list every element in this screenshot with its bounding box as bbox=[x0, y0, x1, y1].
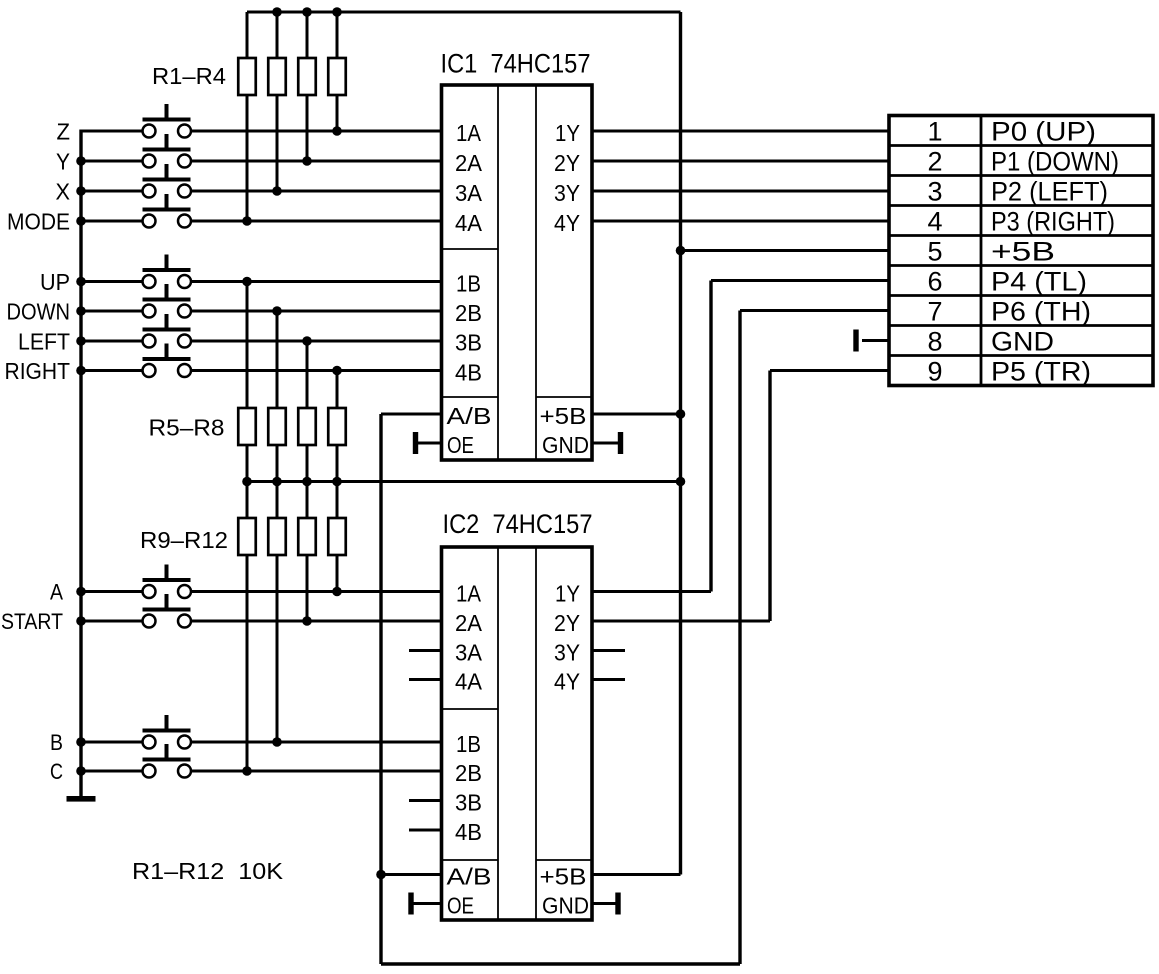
label R1-R4 bbox=[152, 63, 226, 89]
wire X to IC1 3A bbox=[191, 190, 442, 193]
wire TH to table pin 7 bbox=[740, 309, 889, 312]
svg-text:RIGHT: RIGHT bbox=[5, 358, 71, 384]
svg-text:1A: 1A bbox=[456, 120, 482, 146]
junction bus / X bbox=[76, 186, 86, 196]
svg-text:4Y: 4Y bbox=[554, 210, 580, 236]
label X bbox=[56, 178, 71, 204]
junction +5V / IC1 +5B bbox=[676, 409, 686, 419]
push-button SW-LEFT bbox=[143, 314, 192, 348]
svg-text:2B: 2B bbox=[455, 760, 482, 786]
junction bus / Y bbox=[76, 156, 86, 166]
svg-text:P2 (LEFT): P2 (LEFT) bbox=[991, 176, 1108, 206]
svg-text:1B: 1B bbox=[456, 731, 481, 757]
svg-text:9: 9 bbox=[927, 356, 942, 386]
wire bus to SW-B bbox=[81, 741, 143, 744]
junction R1 / MODE net bbox=[242, 216, 252, 226]
junction bus / A bbox=[76, 587, 86, 597]
junction R2 / X net bbox=[272, 186, 282, 196]
push-button SW-B bbox=[143, 715, 192, 749]
stub IC2 3A bbox=[409, 649, 442, 652]
resistor R8 bbox=[328, 371, 346, 482]
table pin 7 name P6 (TH) bbox=[991, 296, 1091, 326]
resistor R9 bbox=[238, 482, 256, 772]
label Z bbox=[57, 118, 71, 144]
connector DB9 pin table bbox=[889, 116, 1153, 386]
table pin 8 number bbox=[927, 326, 942, 356]
resistor R12 bbox=[328, 482, 346, 592]
svg-text:P5 (TR): P5 (TR) bbox=[991, 356, 1091, 386]
resistor R5 bbox=[238, 282, 256, 482]
wire bus to SW-Z bbox=[81, 130, 143, 133]
svg-text:P1 (DOWN): P1 (DOWN) bbox=[991, 146, 1119, 176]
svg-text:1B: 1B bbox=[456, 271, 481, 297]
IC2 pin 2B bbox=[455, 760, 482, 786]
svg-text:1Y: 1Y bbox=[555, 120, 580, 146]
table GND stub bbox=[862, 339, 889, 342]
wire bus to SW-Y bbox=[81, 160, 143, 163]
svg-text:1: 1 bbox=[927, 116, 942, 146]
stub IC2 3Y bbox=[592, 649, 625, 652]
wire IC2 +5B to +5V net bbox=[592, 873, 681, 876]
svg-text:P6 (TH): P6 (TH) bbox=[991, 296, 1091, 326]
stub IC2 3B bbox=[409, 799, 442, 802]
table pin 9 name P5 (TR) bbox=[991, 356, 1091, 386]
IC1 pin 1B bbox=[456, 271, 481, 297]
junction R7 / LEFT net bbox=[302, 336, 312, 346]
svg-text:C: C bbox=[50, 759, 63, 784]
IC1 OE ground tick bbox=[413, 433, 417, 454]
wire B to IC2 1B bbox=[191, 741, 442, 744]
junction bus / B bbox=[76, 737, 86, 747]
junction R8 / RIGHT net bbox=[332, 366, 342, 376]
push-button SW-A bbox=[143, 565, 192, 599]
wire LEFT to IC1 3B bbox=[191, 340, 442, 343]
svg-text:4B: 4B bbox=[455, 360, 482, 386]
table pin 8 name GND bbox=[991, 326, 1054, 356]
push-button SW-START bbox=[143, 594, 192, 628]
svg-text:2B: 2B bbox=[455, 300, 482, 326]
junction +5V / pin5 bbox=[676, 246, 686, 256]
stub IC2 4A bbox=[409, 678, 442, 681]
table pin 2 name P1 (DOWN) bbox=[991, 146, 1119, 176]
wire IC1 2Y to table pin 2 bbox=[592, 160, 889, 163]
svg-text:+5B: +5B bbox=[540, 864, 587, 890]
wire C to IC2 2B bbox=[191, 770, 442, 773]
svg-text:3B: 3B bbox=[455, 330, 482, 356]
svg-text:3A: 3A bbox=[455, 640, 483, 666]
svg-text:2Y: 2Y bbox=[554, 150, 580, 176]
resistor R1 bbox=[238, 12, 256, 221]
wire bus to SW-RIGHT bbox=[81, 369, 143, 372]
wire bus to SW-UP bbox=[81, 280, 143, 283]
svg-text:4B: 4B bbox=[455, 819, 482, 845]
table GND ground tick bbox=[854, 330, 858, 351]
IC2 GND ground tick bbox=[616, 893, 620, 914]
table pin 2 number bbox=[927, 146, 942, 176]
svg-text:R1–R4: R1–R4 bbox=[152, 63, 226, 89]
junction rail / R7 bbox=[302, 477, 312, 487]
wire bus to SW-MODE bbox=[81, 220, 143, 223]
junction select / IC2 A/B bbox=[376, 870, 386, 880]
svg-text:GND: GND bbox=[542, 432, 589, 458]
label RIGHT bbox=[5, 358, 71, 384]
svg-text:3: 3 bbox=[927, 176, 942, 206]
junction R10 / B net bbox=[272, 737, 282, 747]
table pin 6 number bbox=[927, 266, 942, 296]
IC2 pin 4Y bbox=[554, 669, 580, 695]
table pin 3 name P2 (LEFT) bbox=[991, 176, 1108, 206]
IC2 pin A/B bbox=[447, 864, 492, 890]
junction R11 / START net bbox=[302, 616, 312, 626]
wire +5V rail mid bbox=[247, 480, 681, 483]
IC2 pin 1Y bbox=[555, 581, 580, 607]
svg-text:8: 8 bbox=[927, 326, 942, 356]
wire +5V top rail bbox=[247, 11, 681, 14]
wire IC1 4Y to table pin 4 bbox=[592, 220, 889, 223]
wire IC1 +5B to +5V net bbox=[592, 413, 681, 416]
junction bus / RIGHT bbox=[76, 366, 86, 376]
label UP bbox=[40, 269, 70, 295]
IC2 pin GND bbox=[542, 893, 589, 919]
svg-text:5: 5 bbox=[927, 236, 942, 266]
table pin 3 number bbox=[927, 176, 942, 206]
IC1 pin 4Y bbox=[554, 210, 580, 236]
junction rail / R5 bbox=[242, 477, 252, 487]
IC2 OE stub bbox=[413, 902, 442, 905]
label MODE bbox=[7, 208, 70, 234]
label B bbox=[50, 730, 63, 755]
junction bus / C bbox=[76, 766, 86, 776]
wire bus to SW-C bbox=[81, 770, 143, 773]
wire START to IC2 2A bbox=[191, 620, 442, 623]
wire DOWN to IC1 2B bbox=[191, 310, 442, 313]
wire TR to table pin 9 bbox=[770, 369, 889, 372]
label R1-R12 10K bbox=[132, 858, 284, 884]
wire Z to IC1 1A bbox=[191, 130, 442, 133]
svg-text:2: 2 bbox=[927, 146, 942, 176]
junction bus / MODE bbox=[76, 216, 86, 226]
wire IC1 A/B link bbox=[381, 413, 442, 416]
wire TH vertical bbox=[738, 311, 741, 965]
IC1 pin 3A bbox=[455, 180, 483, 206]
IC2 pin 2A bbox=[455, 610, 483, 636]
svg-text:4A: 4A bbox=[455, 669, 483, 695]
svg-text:2A: 2A bbox=[455, 610, 483, 636]
label R9-R12 bbox=[140, 527, 228, 553]
wire select vertical bbox=[379, 414, 382, 964]
IC IC2 74HC157 body bbox=[442, 547, 593, 920]
svg-text:6: 6 bbox=[927, 266, 942, 296]
svg-text:Z: Z bbox=[57, 118, 71, 144]
svg-text:OE: OE bbox=[447, 432, 474, 458]
IC2 pin 4A bbox=[455, 669, 483, 695]
wire +5V to table pin 5 bbox=[681, 249, 890, 252]
table pin 1 number bbox=[927, 116, 942, 146]
wire +5V vertical bbox=[679, 12, 682, 875]
svg-text:P3 (RIGHT): P3 (RIGHT) bbox=[991, 206, 1115, 236]
IC1 pin 1Y bbox=[555, 120, 580, 146]
wire bus to SW-X bbox=[81, 190, 143, 193]
IC1 pin 2Y bbox=[554, 150, 580, 176]
svg-text:R9–R12: R9–R12 bbox=[140, 527, 228, 553]
svg-text:B: B bbox=[50, 730, 63, 755]
svg-text:DOWN: DOWN bbox=[7, 298, 71, 324]
svg-text:1Y: 1Y bbox=[555, 581, 580, 607]
junction R6 / DOWN net bbox=[272, 306, 282, 316]
wire TL vertical bbox=[709, 281, 712, 592]
junction R3 / Y net bbox=[302, 156, 312, 166]
IC2 pin OE bbox=[447, 893, 474, 919]
wire bus to SW-A bbox=[81, 590, 143, 593]
svg-text:3Y: 3Y bbox=[554, 180, 580, 206]
stub IC2 4Y bbox=[592, 678, 625, 681]
resistor R6 bbox=[268, 311, 286, 482]
IC1 pin A/B bbox=[447, 403, 492, 429]
svg-text:4: 4 bbox=[927, 206, 942, 236]
wire IC2 1Y to corner bbox=[592, 590, 711, 593]
junction R12 / A net bbox=[332, 587, 342, 597]
wire A to IC2 1A bbox=[191, 590, 442, 593]
stub IC2 4B bbox=[409, 829, 442, 832]
svg-text:2Y: 2Y bbox=[554, 610, 580, 636]
resistor R3 bbox=[298, 12, 316, 161]
svg-text:IC2 74HC157: IC2 74HC157 bbox=[443, 509, 593, 539]
label IC2 74HC157 bbox=[443, 509, 593, 539]
wire IC1 1Y to table pin 1 bbox=[592, 130, 889, 133]
label START bbox=[1, 609, 63, 634]
label R5-R8 bbox=[149, 415, 225, 441]
junction R4 / Z net bbox=[332, 126, 342, 136]
IC2 pin 3Y bbox=[554, 640, 580, 666]
svg-text:R5–R8: R5–R8 bbox=[149, 415, 225, 441]
wire IC2 A/B link bbox=[381, 873, 442, 876]
IC IC1 74HC157 body bbox=[442, 85, 593, 460]
svg-text:UP: UP bbox=[40, 269, 70, 295]
svg-text:3B: 3B bbox=[455, 790, 482, 816]
wire bus to SW-START bbox=[81, 620, 143, 623]
svg-text:4Y: 4Y bbox=[554, 669, 580, 695]
label Y bbox=[56, 148, 70, 174]
label LEFT bbox=[18, 328, 70, 354]
IC2 pin 4B bbox=[455, 819, 482, 845]
resistor R11 bbox=[298, 482, 316, 622]
IC2 GND stub bbox=[592, 902, 616, 905]
IC1 pin 1A bbox=[456, 120, 482, 146]
push-button SW-Y bbox=[143, 134, 192, 168]
junction rail / R8 bbox=[332, 477, 342, 487]
IC2 pin 1B bbox=[456, 731, 481, 757]
wire IC1 3Y to table pin 3 bbox=[592, 190, 889, 193]
svg-text:1A: 1A bbox=[456, 581, 482, 607]
wire TL to table pin 6 bbox=[711, 279, 889, 282]
IC1 GND ground tick bbox=[618, 433, 622, 454]
junction bus / DOWN bbox=[76, 306, 86, 316]
wire MODE to IC1 4A bbox=[191, 220, 442, 223]
svg-text:3Y: 3Y bbox=[554, 640, 580, 666]
junction bus / LEFT bbox=[76, 336, 86, 346]
svg-text:2A: 2A bbox=[455, 150, 483, 176]
table pin 6 name P4 (TL) bbox=[991, 266, 1087, 296]
svg-text:+5B: +5B bbox=[540, 403, 587, 429]
IC1 pin GND bbox=[542, 432, 589, 458]
svg-text:P4 (TL): P4 (TL) bbox=[991, 266, 1087, 296]
svg-text:OE: OE bbox=[447, 893, 474, 919]
table pin 4 number bbox=[927, 206, 942, 236]
svg-text:4A: 4A bbox=[455, 210, 483, 236]
IC1 pin OE bbox=[447, 432, 474, 458]
table pin 5 name +5B bbox=[991, 236, 1055, 266]
table pin 4 name P3 (RIGHT) bbox=[991, 206, 1115, 236]
IC2 pin +5B bbox=[540, 864, 587, 890]
push-button SW-MODE bbox=[143, 194, 192, 228]
resistor R10 bbox=[268, 482, 286, 743]
svg-text:X: X bbox=[56, 178, 71, 204]
resistor R4 bbox=[328, 12, 346, 131]
svg-text:GND: GND bbox=[542, 893, 589, 919]
IC1 pin 2B bbox=[455, 300, 482, 326]
svg-text:+5B: +5B bbox=[991, 236, 1055, 266]
wire TR vertical bbox=[768, 371, 771, 622]
IC1 pin 2A bbox=[455, 150, 483, 176]
table pin 1 name P0 (UP) bbox=[991, 116, 1096, 146]
label DOWN bbox=[7, 298, 71, 324]
wire UP to IC1 1B bbox=[191, 280, 442, 283]
svg-text:3A: 3A bbox=[455, 180, 483, 206]
table pin 5 number bbox=[927, 236, 942, 266]
svg-text:IC1 74HC157: IC1 74HC157 bbox=[441, 49, 591, 79]
push-button SW-RIGHT bbox=[143, 344, 192, 378]
wire Y to IC1 2A bbox=[191, 160, 442, 163]
svg-text:MODE: MODE bbox=[7, 208, 70, 234]
svg-text:7: 7 bbox=[927, 296, 942, 326]
IC1 pin 4A bbox=[455, 210, 483, 236]
IC2 pin 1A bbox=[456, 581, 482, 607]
junction +5V / rail bbox=[676, 477, 686, 487]
junction top rail / R3 bbox=[302, 7, 312, 17]
junction R5 / UP net bbox=[242, 277, 252, 287]
wire IC2 2Y to corner bbox=[592, 620, 770, 623]
junction bus / START bbox=[76, 616, 86, 626]
IC2 pin 2Y bbox=[554, 610, 580, 636]
table pin 9 number bbox=[927, 356, 942, 386]
junction top rail / R4 bbox=[332, 7, 342, 17]
svg-text:Y: Y bbox=[56, 148, 70, 174]
svg-text:A/B: A/B bbox=[447, 403, 492, 429]
wire bus to SW-LEFT bbox=[81, 340, 143, 343]
label C bbox=[50, 759, 63, 784]
wire bus to SW-DOWN bbox=[81, 310, 143, 313]
push-button SW-X bbox=[143, 164, 192, 198]
resistor R7 bbox=[298, 341, 316, 482]
junction top rail / R2 bbox=[272, 7, 282, 17]
IC2 OE ground tick bbox=[409, 893, 413, 914]
table pin 7 number bbox=[927, 296, 942, 326]
IC1 pin 3Y bbox=[554, 180, 580, 206]
junction rail / R6 bbox=[272, 477, 282, 487]
svg-text:LEFT: LEFT bbox=[18, 328, 70, 354]
push-button SW-UP bbox=[143, 255, 192, 289]
junction bus / UP bbox=[76, 277, 86, 287]
IC2 pin 3A bbox=[455, 640, 483, 666]
svg-text:GND: GND bbox=[991, 326, 1054, 356]
IC1 OE stub bbox=[417, 442, 442, 445]
label A bbox=[50, 579, 63, 604]
svg-text:R1–R12 10K: R1–R12 10K bbox=[132, 858, 284, 884]
wire left common bus bbox=[79, 130, 82, 799]
IC1 pin +5B bbox=[540, 403, 587, 429]
junction R9 / C net bbox=[242, 766, 252, 776]
resistor R2 bbox=[268, 12, 286, 191]
wire TH bottom run bbox=[381, 962, 740, 965]
IC1 pin 4B bbox=[455, 360, 482, 386]
svg-text:A: A bbox=[50, 579, 63, 604]
svg-text:START: START bbox=[1, 609, 63, 634]
label IC1 74HC157 bbox=[441, 49, 591, 79]
IC1 pin 3B bbox=[455, 330, 482, 356]
IC2 pin 3B bbox=[455, 790, 482, 816]
IC1 GND stub bbox=[592, 442, 619, 445]
wire RIGHT to IC1 4B bbox=[191, 369, 442, 372]
ground bbox=[67, 797, 95, 802]
svg-text:A/B: A/B bbox=[447, 864, 492, 890]
svg-text:P0 (UP): P0 (UP) bbox=[991, 116, 1096, 146]
push-button SW-C bbox=[143, 744, 192, 778]
push-button SW-DOWN bbox=[143, 284, 192, 318]
push-button SW-Z bbox=[143, 104, 192, 138]
